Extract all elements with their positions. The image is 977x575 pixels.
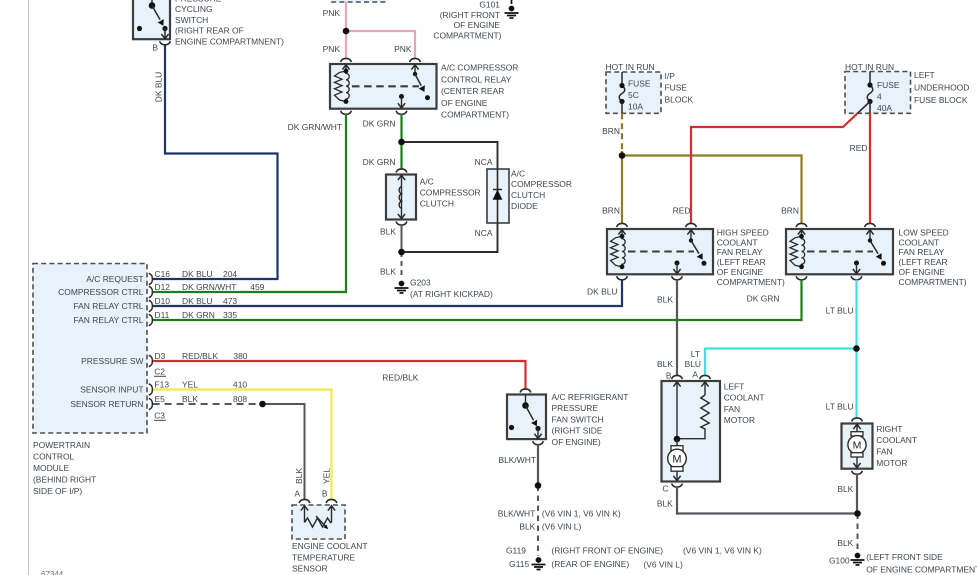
svg-text:OF ENGINE): OF ENGINE)	[552, 437, 601, 447]
svg-text:(BEHIND RIGHT: (BEHIND RIGHT	[33, 474, 96, 484]
S2 pivot stub	[525, 395, 527, 406]
svg-text:BLOCK: BLOCK	[665, 94, 694, 104]
svg-text:LT BLU: LT BLU	[826, 402, 854, 412]
svg-text:NCA: NCA	[475, 157, 493, 167]
svg-text:COMPARTMENT): COMPARTMENT)	[717, 277, 785, 287]
svg-text:SWITCH: SWITCH	[175, 15, 208, 25]
page left margin rule	[28, 0, 30, 575]
svg-text:RED: RED	[673, 205, 691, 215]
svg-text:SIDE OF I/P): SIDE OF I/P)	[33, 486, 82, 496]
wire BLK/WHT S2 down	[537, 445, 539, 486]
svg-text:(V6 VIN 1, V6 VIN K): (V6 VIN 1, V6 VIN K)	[683, 546, 762, 556]
svg-text:D10: D10	[155, 296, 171, 306]
junction node E5	[259, 401, 266, 408]
K3 output pin line	[856, 263, 858, 273]
svg-text:(RIGHT SIDE: (RIGHT SIDE	[552, 426, 603, 436]
svg-text:COOLANT: COOLANT	[724, 393, 765, 403]
svg-text:FAN RELAY CTRL: FAN RELAY CTRL	[73, 315, 143, 325]
junction node BRN	[619, 152, 626, 159]
svg-text:BLK: BLK	[657, 359, 673, 369]
svg-text:COMPARTMENT): COMPARTMENT)	[433, 30, 501, 40]
K3 coil pin arrow	[798, 230, 805, 235]
wire DK GRN K1 to clutch	[400, 114, 402, 170]
K3 output contact dot	[854, 261, 859, 266]
svg-text:FAN: FAN	[724, 404, 740, 414]
K2 coil pin arrow	[618, 230, 625, 235]
fuse 5C stub bottom	[621, 102, 623, 114]
svg-text:4: 4	[877, 92, 882, 102]
S2 switch blade	[526, 406, 534, 421]
svg-text:MODULE: MODULE	[33, 463, 69, 473]
svg-text:459: 459	[250, 282, 264, 292]
PCM pin connector cups	[149, 273, 153, 284]
ground G101 symbol	[509, 6, 515, 12]
svg-text:COOLANT: COOLANT	[876, 435, 917, 445]
K2 output contact dot	[675, 261, 680, 266]
junction node PNK	[343, 28, 350, 35]
svg-text:COMPARTMENT): COMPARTMENT)	[441, 110, 509, 120]
S2 bottom cup	[533, 441, 544, 445]
K2 top connector cups	[617, 223, 628, 227]
svg-text:CYCLING: CYCLING	[175, 4, 213, 14]
wire LT BLU K3 down	[855, 280, 857, 349]
sensor pin B arrow	[328, 506, 335, 511]
low speed coolant fan relay K3 box	[786, 229, 893, 274]
svg-text:PNK: PNK	[394, 44, 412, 54]
S1 pivot stub	[151, 0, 153, 6]
svg-text:TEMPERATURE: TEMPERATURE	[292, 553, 356, 563]
S1 pin B arrow	[161, 34, 168, 39]
wire RED to K3 switch	[869, 113, 871, 224]
svg-text:COMPRESSOR CTRL: COMPRESSOR CTRL	[58, 287, 144, 297]
svg-text:E5: E5	[155, 394, 166, 404]
K1 relay coil	[335, 71, 347, 102]
S1 connector B cup	[160, 41, 171, 45]
sensor thermistor	[305, 518, 332, 527]
svg-text:BLK: BLK	[182, 394, 198, 404]
svg-text:FAN SWITCH: FAN SWITCH	[552, 414, 604, 424]
K1 box	[330, 64, 437, 109]
junction node clutch feed	[398, 139, 405, 146]
clutch coil	[401, 177, 403, 218]
wire BRN to K2 coil	[621, 151, 623, 224]
svg-text:BLK/WHT: BLK/WHT	[498, 455, 536, 465]
wire DK GRN/WHT 459 K1 to PCM D12	[153, 114, 346, 292]
wire BLK dashed to G203	[401, 252, 403, 279]
wire BRN dashed below fuse	[621, 113, 623, 151]
fuse 4 stub bottom	[869, 102, 871, 114]
K3 actuator dashed link	[807, 250, 873, 252]
svg-text:ENGINE COOLANT: ENGINE COOLANT	[292, 541, 367, 551]
svg-text:DK GRN: DK GRN	[182, 310, 215, 320]
svg-text:OF ENGINE: OF ENGINE	[899, 267, 946, 277]
svg-text:MOTOR: MOTOR	[876, 458, 907, 468]
clutch L1 box	[386, 175, 416, 220]
svg-text:YEL: YEL	[182, 379, 198, 389]
svg-text:RIGHT: RIGHT	[876, 424, 902, 434]
svg-text:UNDERHOOD: UNDERHOOD	[914, 83, 969, 93]
S1 blade contact dot	[162, 26, 167, 31]
wire BLK dashed to G100	[857, 514, 859, 552]
ground G115 symbol	[536, 557, 542, 563]
svg-text:OF ENGINE: OF ENGINE	[441, 98, 488, 108]
svg-text:FAN: FAN	[876, 447, 892, 457]
svg-text:473: 473	[223, 296, 237, 306]
sensor top cups	[299, 499, 310, 503]
K2 NC contact dot	[702, 261, 707, 266]
high speed coolant fan relay K2 box	[607, 229, 713, 274]
svg-text:BLK/WHT: BLK/WHT	[498, 509, 536, 519]
svg-text:(RIGHT FRONT: (RIGHT FRONT	[440, 10, 500, 20]
fuse 4 diagonal out	[858, 102, 871, 114]
left underhood fuse block F2 box	[845, 72, 911, 114]
svg-text:DK BLU: DK BLU	[587, 287, 617, 297]
svg-text:10A: 10A	[628, 102, 643, 112]
wire RED diagonal to K2 switch	[691, 113, 858, 224]
svg-text:FAN RELAY: FAN RELAY	[899, 247, 945, 257]
svg-text:808: 808	[233, 394, 247, 404]
svg-text:OF ENGINE: OF ENGINE	[717, 267, 764, 277]
wire NCA branch to diode top	[402, 142, 498, 169]
svg-text:B: B	[666, 371, 672, 381]
svg-text:C: C	[662, 484, 668, 494]
svg-text:A/C REFRIGERANT: A/C REFRIGERANT	[552, 392, 629, 402]
M1 junction node	[674, 436, 681, 443]
svg-text:PRESSURE: PRESSURE	[552, 403, 599, 413]
fuse 4 stub top	[869, 72, 871, 86]
svg-text:(V6 VIN L): (V6 VIN L)	[643, 560, 683, 570]
wire BLK clutch to junction	[401, 225, 403, 252]
svg-text:D12: D12	[155, 282, 171, 292]
svg-text:BRN: BRN	[602, 205, 620, 215]
K1 switch pivot dot	[413, 72, 417, 76]
M1 top connector cups	[672, 375, 683, 379]
svg-text:SENSOR RETURN: SENSOR RETURN	[70, 399, 143, 409]
M2 top connector cup	[852, 418, 863, 422]
ground G100 symbol	[855, 553, 861, 559]
svg-text:C16: C16	[155, 269, 171, 279]
svg-text:COOLANT: COOLANT	[717, 237, 758, 247]
svg-text:HIGH SPEED: HIGH SPEED	[717, 227, 769, 237]
K3 NC contact dot	[881, 261, 886, 266]
svg-text:I/P: I/P	[665, 71, 676, 81]
A/C compressor control relay K1 connector cups	[341, 58, 352, 62]
junction node LT BLU	[853, 345, 860, 352]
dashed box (cut off at top)	[331, 0, 386, 2]
M2 bottom cup	[852, 471, 863, 475]
svg-text:67344: 67344	[41, 570, 64, 575]
svg-text:DK GRN/WHT: DK GRN/WHT	[288, 122, 342, 132]
svg-text:5C: 5C	[628, 90, 639, 100]
K1 output pin line	[401, 97, 403, 108]
svg-text:FUSE BLOCK: FUSE BLOCK	[914, 95, 968, 105]
svg-text:BLU: BLU	[685, 359, 701, 369]
svg-text:A/C: A/C	[511, 168, 525, 178]
svg-text:M: M	[853, 440, 862, 452]
svg-text:BLK: BLK	[837, 484, 853, 494]
svg-text:BRN: BRN	[602, 126, 620, 136]
svg-text:BLK: BLK	[294, 468, 304, 484]
K3 switch pivot dot	[868, 238, 872, 242]
S2 top connector cup	[520, 389, 531, 393]
svg-text:FUSE: FUSE	[877, 80, 900, 90]
A/C compressor clutch connector cup	[396, 169, 407, 173]
diode D1 symbol	[497, 169, 499, 223]
svg-text:A: A	[294, 489, 300, 499]
S2 pin line	[537, 429, 539, 439]
svg-text:DK GRN/WHT: DK GRN/WHT	[182, 282, 236, 292]
svg-text:COMPRESSOR: COMPRESSOR	[420, 187, 481, 197]
svg-text:FAN RELAY: FAN RELAY	[717, 247, 763, 257]
svg-text:G100: G100	[829, 556, 850, 566]
wire YEL 410 PCM F13 to sensor B	[153, 390, 332, 501]
K1 NC contact dot	[425, 95, 430, 100]
K2 switch pin arrow	[687, 230, 694, 235]
wire RED/BLK 380 PCM D3 to S2	[153, 361, 526, 390]
S2 NC contact dot	[509, 425, 514, 430]
S2 pivot dot	[522, 402, 529, 409]
svg-text:C2: C2	[154, 367, 165, 377]
sensor pin A arrow	[301, 506, 308, 511]
K1 switch blade	[415, 74, 421, 86]
svg-text:(RIGHT REAR OF: (RIGHT REAR OF	[175, 26, 244, 36]
svg-text:DK GRN: DK GRN	[363, 119, 396, 129]
svg-text:OF ENGINE: OF ENGINE	[454, 20, 501, 30]
svg-text:DK GRN: DK GRN	[747, 294, 780, 304]
svg-text:G203: G203	[410, 277, 431, 287]
K1 output contact dot	[399, 94, 404, 99]
wire NCA branch to diode bottom	[402, 223, 498, 252]
wire BLK dashed to G115	[537, 486, 539, 557]
svg-text:G115: G115	[509, 559, 529, 569]
svg-text:RED: RED	[850, 143, 868, 153]
svg-text:(REAR OF ENGINE): (REAR OF ENGINE)	[551, 559, 629, 569]
svg-text:PNK: PNK	[323, 44, 341, 54]
svg-text:BLK: BLK	[519, 521, 535, 531]
svg-text:B: B	[152, 43, 158, 53]
A/C compressor clutch diode D1 box	[487, 169, 509, 223]
svg-text:(LEFT FRONT SIDE: (LEFT FRONT SIDE	[866, 552, 943, 562]
wire DK GRN 335 K3 to PCM D11	[153, 280, 802, 320]
svg-text:BLK: BLK	[657, 499, 673, 509]
wire BLK M1-C to junction	[677, 487, 858, 514]
clutch bottom cup	[396, 222, 407, 226]
svg-text:B: B	[322, 489, 328, 499]
svg-text:D3: D3	[155, 351, 166, 361]
wire BLK to sensor A	[263, 404, 305, 500]
svg-text:G119: G119	[506, 545, 526, 555]
engine coolant temperature sensor box	[292, 505, 345, 539]
svg-text:(V6 VIN 1, V6 VIN K): (V6 VIN 1, V6 VIN K)	[542, 509, 621, 519]
I/P fuse block F1 box	[606, 72, 661, 113]
wire PNK branch to K1 switch	[346, 31, 415, 59]
wire DK BLU 204 S1-B to PCM C16	[153, 45, 278, 279]
S1 switch blade	[152, 6, 160, 20]
S2 blade contact dot	[535, 426, 540, 431]
svg-text:BLK: BLK	[380, 226, 396, 236]
svg-text:(AT RIGHT KICKPAD): (AT RIGHT KICKPAD)	[410, 289, 493, 299]
S1 pivot dot	[149, 2, 156, 9]
fuse 5C stub top	[621, 72, 623, 86]
wire BRN branch to K3 coil	[622, 156, 802, 224]
wire BLK 808 dashed from PCM E5	[153, 403, 263, 405]
svg-text:DK BLU: DK BLU	[182, 296, 212, 306]
A/C refrigerant pressure fan switch S2 box	[507, 395, 546, 440]
svg-text:F13: F13	[155, 379, 170, 389]
svg-text:LT: LT	[691, 349, 700, 359]
K3 relay coil	[790, 236, 802, 266]
svg-text:SENSOR INPUT: SENSOR INPUT	[80, 385, 143, 395]
K1 switch pin arrow	[411, 65, 418, 70]
svg-text:CLUTCH: CLUTCH	[420, 199, 454, 209]
svg-text:BLK: BLK	[837, 538, 853, 548]
svg-text:(LEFT REAR: (LEFT REAR	[899, 257, 948, 267]
svg-text:MOTOR: MOTOR	[724, 415, 755, 425]
svg-text:COMPRESSOR: COMPRESSOR	[511, 179, 572, 189]
K1 bottom connector cups	[341, 111, 352, 115]
M1 pin B arrow	[673, 382, 680, 387]
wire DK BLU 473 K2 to PCM D10	[153, 280, 622, 306]
svg-text:BLK: BLK	[657, 295, 673, 305]
svg-text:204: 204	[223, 269, 237, 279]
M2 motor symbol	[853, 424, 860, 429]
M1 bottom cup	[672, 484, 683, 488]
svg-text:CONTROL: CONTROL	[33, 451, 75, 461]
wire LT BLU to M2	[855, 349, 857, 419]
K1 actuator dashed link	[352, 85, 419, 87]
K3 switch blade	[870, 241, 878, 254]
svg-text:RED/BLK: RED/BLK	[182, 351, 218, 361]
K2 actuator dashed link	[628, 250, 694, 252]
svg-text:A: A	[692, 370, 698, 380]
svg-text:ENGINE COMPARTMNENT): ENGINE COMPARTMNENT)	[175, 36, 284, 46]
svg-text:LT BLU: LT BLU	[826, 306, 854, 316]
svg-text:POWERTRAIN: POWERTRAIN	[33, 440, 90, 450]
fuse 4 40A symbol	[867, 85, 873, 102]
svg-text:PRESSURE: PRESSURE	[175, 0, 222, 4]
M1 pin A arrow	[701, 382, 708, 387]
svg-text:D11: D11	[155, 310, 170, 320]
K2 output pin line	[676, 263, 678, 273]
svg-text:M: M	[672, 454, 681, 466]
ground G203 symbol	[399, 281, 405, 287]
svg-text:YEL: YEL	[322, 468, 332, 484]
K2 relay coil	[611, 236, 623, 266]
left coolant fan motor M1 box	[662, 381, 721, 482]
K2 bottom connector cups	[617, 276, 628, 280]
junction node clutch ground	[398, 249, 405, 256]
M1 dropping resistor	[677, 395, 709, 439]
svg-text:G101: G101	[479, 0, 500, 10]
svg-text:A/C: A/C	[420, 176, 434, 186]
K3 bottom connector cups	[796, 276, 807, 280]
K2 switch blade	[691, 241, 699, 254]
K3 top connector cups	[796, 223, 807, 227]
svg-text:(V6 VIN L): (V6 VIN L)	[542, 521, 582, 531]
svg-text:335: 335	[223, 310, 237, 320]
svg-text:FUSE: FUSE	[628, 78, 651, 88]
svg-text:FAN RELAY CTRL: FAN RELAY CTRL	[73, 301, 143, 311]
junction node motors ground	[854, 510, 861, 517]
svg-text:A/C REQUEST: A/C REQUEST	[86, 274, 143, 284]
svg-text:BRN: BRN	[781, 205, 799, 215]
ground G101 stub	[511, 0, 513, 6]
K3 switch pin arrow	[866, 230, 873, 235]
M1 motor symbol	[676, 439, 678, 446]
svg-text:PRESSURE SW: PRESSURE SW	[81, 356, 143, 366]
S1 pin B line	[164, 29, 166, 39]
K2 switch pivot dot	[689, 238, 693, 242]
svg-text:(LEFT REAR: (LEFT REAR	[717, 257, 766, 267]
svg-text:COOLANT: COOLANT	[899, 237, 940, 247]
svg-text:HOT IN RUN: HOT IN RUN	[845, 62, 894, 72]
svg-text:C3: C3	[154, 411, 165, 421]
svg-text:PNK: PNK	[323, 8, 341, 18]
right coolant fan motor M2 box	[842, 424, 873, 469]
svg-text:380: 380	[233, 351, 247, 361]
wire BLK M2 down	[856, 474, 858, 514]
wire PNK branch to K1 coil	[345, 31, 347, 59]
svg-text:DK GRN: DK GRN	[363, 157, 396, 167]
wire BLK K2 to M1-B	[676, 280, 678, 377]
svg-text:BLK: BLK	[380, 266, 396, 276]
svg-text:COMPARTMENT): COMPARTMENT)	[899, 277, 967, 287]
svg-text:CLUTCH: CLUTCH	[511, 190, 545, 200]
pressure cycling switch S1 box	[133, 0, 170, 39]
svg-text:NCA: NCA	[475, 228, 493, 238]
svg-text:DK BLU: DK BLU	[182, 269, 212, 279]
svg-text:LEFT: LEFT	[724, 381, 745, 391]
svg-text:LOW SPEED: LOW SPEED	[899, 227, 949, 237]
svg-text:RED/BLK: RED/BLK	[382, 373, 418, 383]
svg-text:(CENTER REAR: (CENTER REAR	[441, 86, 504, 96]
wire PNK from dashed box	[345, 2, 347, 31]
svg-text:40A: 40A	[877, 103, 892, 113]
svg-text:A/C COMPRESSOR: A/C COMPRESSOR	[441, 63, 518, 73]
svg-text:DK BLU: DK BLU	[154, 72, 164, 102]
svg-text:FUSE: FUSE	[665, 83, 688, 93]
svg-text:(RIGHT FRONT OF ENGINE): (RIGHT FRONT OF ENGINE)	[551, 546, 663, 556]
svg-text:410: 410	[233, 379, 247, 389]
S1 NC contact dot	[137, 26, 142, 31]
svg-text:HOT IN RUN: HOT IN RUN	[606, 62, 655, 72]
svg-text:CONTROL RELAY: CONTROL RELAY	[441, 74, 512, 84]
svg-text:LEFT: LEFT	[914, 70, 935, 80]
svg-text:OF ENGINE COMPARTMENT): OF ENGINE COMPARTMENT)	[866, 564, 977, 574]
junction node S2 ground split	[535, 482, 542, 489]
fuse 5C 10A symbol	[619, 86, 625, 102]
wire LT BLU branch to M1-A	[705, 349, 857, 377]
powertrain control module PCM box	[33, 264, 147, 434]
K1 coil pin arrow	[342, 65, 349, 70]
svg-text:DIODE: DIODE	[511, 201, 538, 211]
